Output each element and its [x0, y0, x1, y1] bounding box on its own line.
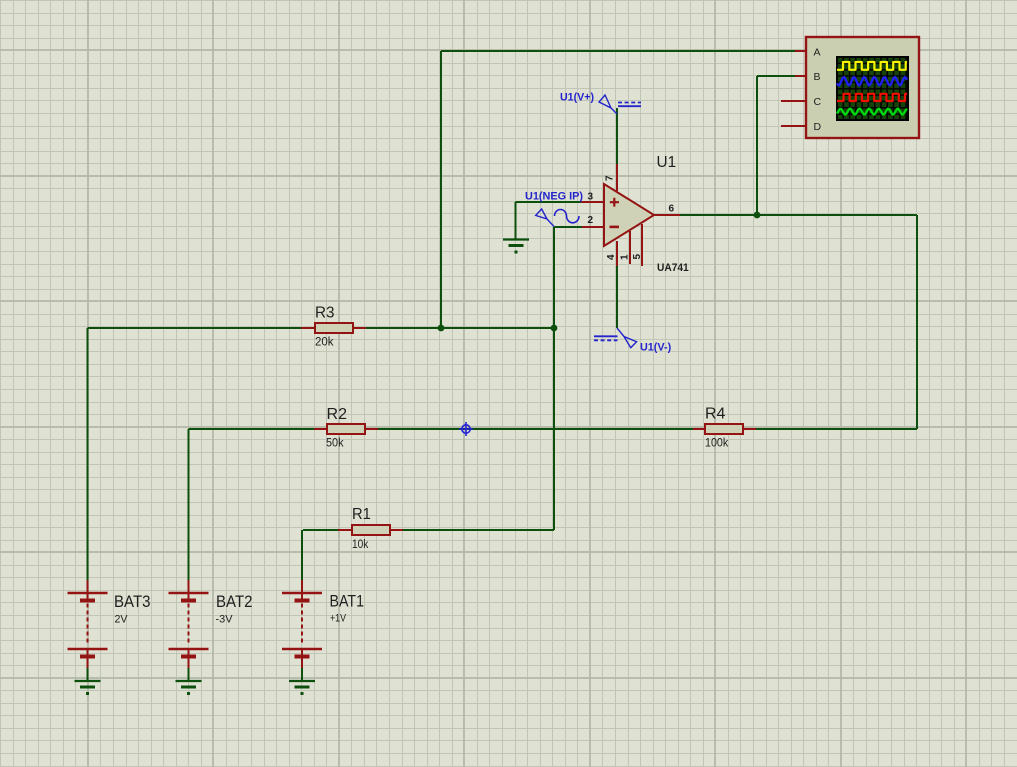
svg-text:+1V: +1V [330, 613, 347, 625]
svg-text:UA741: UA741 [657, 262, 689, 274]
svg-text:C: C [814, 96, 822, 108]
svg-text:U1: U1 [657, 154, 677, 171]
svg-text:3: 3 [587, 192, 593, 203]
svg-text:R4: R4 [705, 406, 726, 423]
svg-text:2: 2 [587, 215, 593, 226]
svg-text:2V: 2V [115, 614, 129, 626]
svg-text:U1(NEG IP): U1(NEG IP) [525, 191, 583, 203]
svg-text:4: 4 [606, 254, 617, 260]
svg-text:10k: 10k [352, 539, 369, 551]
svg-text:7: 7 [605, 175, 616, 181]
svg-text:BAT2: BAT2 [216, 593, 253, 611]
svg-text:5: 5 [632, 254, 643, 260]
svg-text:R1: R1 [352, 506, 371, 523]
svg-text:BAT1: BAT1 [330, 593, 365, 611]
svg-text:50k: 50k [326, 438, 344, 450]
svg-text:D: D [814, 121, 822, 133]
svg-text:20k: 20k [315, 337, 334, 349]
svg-text:-3V: -3V [216, 614, 234, 626]
svg-text:B: B [814, 71, 821, 83]
svg-text:100k: 100k [705, 438, 728, 450]
svg-text:1: 1 [620, 254, 631, 260]
svg-text:BAT3: BAT3 [114, 593, 151, 611]
svg-text:R2: R2 [327, 406, 348, 423]
svg-text:A: A [814, 47, 821, 59]
svg-text:R3: R3 [315, 305, 335, 322]
svg-text:6: 6 [669, 204, 675, 215]
svg-text:U1(V+): U1(V+) [560, 92, 594, 104]
svg-text:U1(V-): U1(V-) [640, 342, 672, 354]
